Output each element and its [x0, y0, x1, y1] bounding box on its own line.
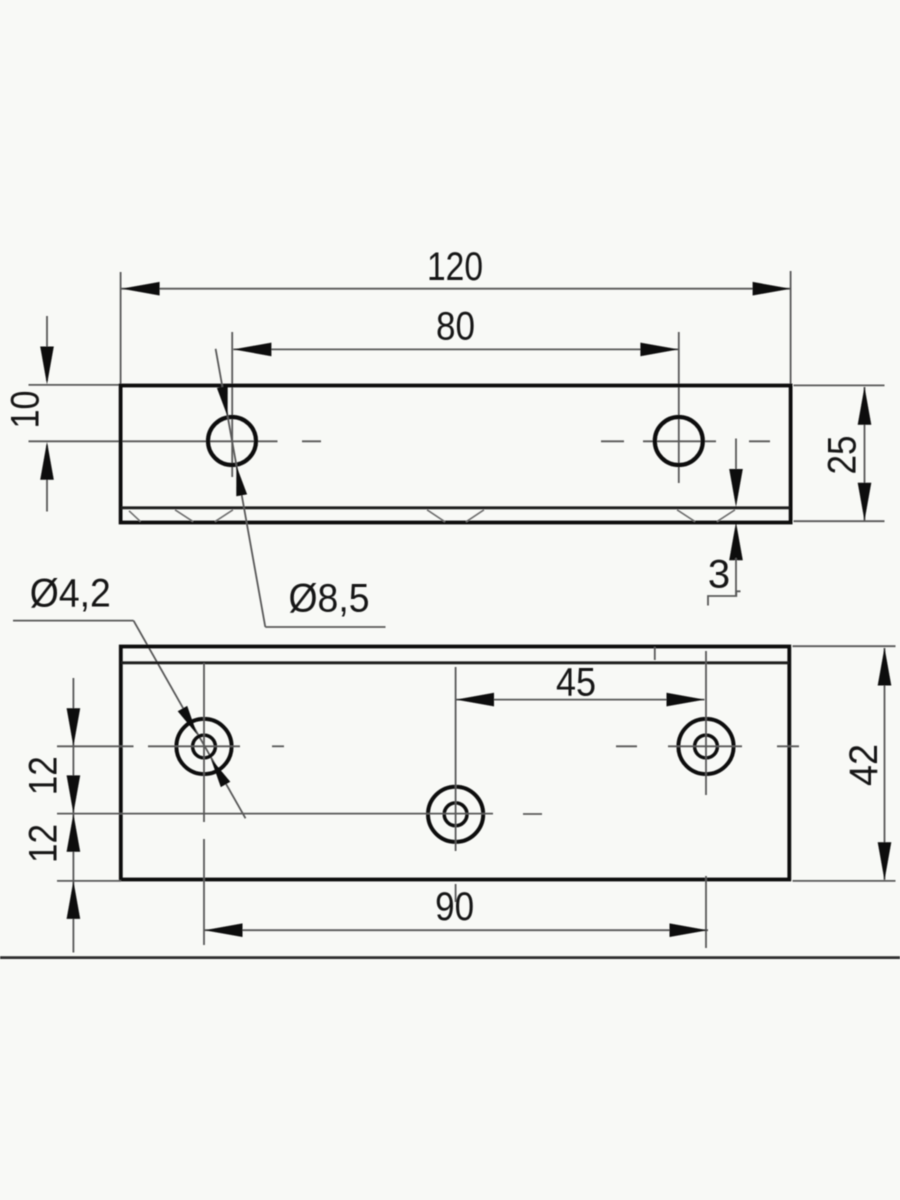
hole D horizontal centerline: [523, 813, 542, 815]
plate bottom view inner flange line: [121, 661, 789, 664]
dim 10 dimension line: [46, 316, 48, 381]
dim 10 arrow lower: [40, 442, 54, 480]
dim 45 dimension line: [456, 699, 705, 701]
dim 80 extension line right (through hole B): [678, 332, 680, 483]
dim 12 arrow 1: [67, 708, 81, 746]
dim 90 arrow left: [205, 923, 243, 937]
hole E vertical centerline: [705, 651, 707, 795]
svg-text:10: 10: [4, 391, 48, 429]
hole C (left, counterbored): [176, 719, 231, 774]
svg-text:25: 25: [821, 436, 865, 475]
drawing frame line bottom: [0, 956, 900, 959]
dim 3 dimension line lower tail: [735, 558, 737, 596]
dim 42 arrow top: [878, 648, 892, 686]
hole C horizontal centerline: [148, 745, 240, 747]
dim 25 arrow top: [858, 387, 872, 425]
dim 90 dimension line: [205, 929, 709, 931]
hole B top view: [655, 417, 703, 465]
svg-text:45: 45: [556, 661, 596, 705]
dim 80 extension line left (through hole A): [231, 332, 233, 477]
dim 120 arrow right: [753, 282, 791, 296]
hole D (center, counterbored): [428, 787, 483, 842]
dim 25 extension top: [794, 384, 885, 386]
plate bottom view outline: [121, 647, 790, 880]
dim 25 arrow bottom: [858, 483, 872, 521]
dim 45 arrow left: [456, 693, 494, 707]
dim 80 dimension line: [233, 348, 678, 350]
dim 80 arrow left: [233, 343, 271, 357]
dia 4,2 label underline: [13, 620, 134, 622]
dim 120 extension line right: [790, 271, 792, 385]
svg-text:12: 12: [21, 756, 65, 795]
mystery step line near dia 8,5: [708, 591, 741, 605]
hole C vertical centerline: [203, 663, 205, 822]
dim 120 arrow left: [122, 282, 160, 296]
dim 120 dimension line: [122, 288, 791, 290]
svg-text:80: 80: [436, 305, 475, 349]
dim 45 arrow right: [667, 693, 705, 707]
hole E horizontal centerline: [616, 745, 637, 747]
dim 12/12 dimension line: [72, 678, 74, 953]
plate top view outline: [121, 386, 791, 523]
leader dia 8,5 arrow lower (points at hole A bottom edge): [236, 466, 247, 497]
dim 42 arrow bottom: [878, 842, 892, 880]
svg-text:Ø4,2: Ø4,2: [30, 572, 111, 616]
svg-text:12: 12: [21, 824, 65, 863]
countersink projection marks: [129, 511, 141, 522]
dim 10 arrow upper: [40, 347, 54, 385]
dim 12 extension line 1: [57, 745, 134, 747]
dim 25 dimension line: [864, 387, 866, 521]
dim 12 extension line 3: [57, 880, 121, 882]
svg-text:120: 120: [427, 245, 483, 289]
hole E (right, counterbored): [678, 719, 733, 774]
dim 10 extension / centerline of holes: [29, 440, 278, 442]
dim 10 extension line top: [29, 384, 120, 386]
dim 3 dimension line upper tail: [735, 439, 737, 473]
dim 90 arrow right: [670, 923, 708, 937]
svg-text:42: 42: [842, 744, 886, 786]
hole D vertical centerline: [455, 667, 457, 851]
dim 12 extension line 2 / hole D centerline: [57, 813, 493, 815]
dia 8,5 label underline: [265, 626, 385, 628]
dim 42 dimension line: [884, 648, 886, 880]
hole A top view: [208, 417, 256, 465]
tick on flange: [654, 647, 656, 660]
dim 12 arrow 4: [67, 881, 81, 919]
dim 90 extension right: [705, 876, 707, 948]
dim 3 arrow lower: [729, 522, 743, 560]
dim 12 arrow 2: [67, 775, 81, 813]
dim 12 arrow 3: [67, 814, 81, 852]
dim 42 extension bottom: [793, 880, 896, 882]
dim 80 arrow right: [640, 343, 678, 357]
dim 120 extension line left: [120, 272, 122, 384]
svg-text:Ø8,5: Ø8,5: [289, 577, 370, 621]
plate top view inner step line (3mm flange): [121, 506, 790, 509]
dim 25 extension bottom: [794, 520, 885, 522]
dia 4,2 leader line: [134, 621, 246, 819]
svg-text:3: 3: [708, 553, 730, 597]
dia 4,2 arrow lower (points at hole C inner bottom-right): [211, 758, 231, 787]
centerline dashes top view: [302, 440, 321, 442]
leader dia 8,5 arrow upper (points at hole A top edge): [217, 386, 228, 417]
dim 3 arrow upper: [729, 469, 743, 507]
leader dia 8,5 line: [216, 349, 266, 627]
dim 42 extension top: [793, 645, 896, 647]
dia 4,2 arrow upper (points at hole C inner top-left): [178, 706, 198, 735]
svg-text:90: 90: [435, 885, 474, 929]
